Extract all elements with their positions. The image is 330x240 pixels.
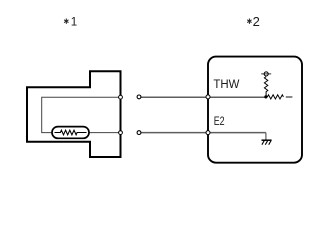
- svg-text:THW: THW: [213, 77, 239, 91]
- svg-text:E2: E2: [214, 114, 225, 128]
- svg-text:2: 2: [253, 14, 260, 29]
- svg-text:1: 1: [71, 15, 77, 28]
